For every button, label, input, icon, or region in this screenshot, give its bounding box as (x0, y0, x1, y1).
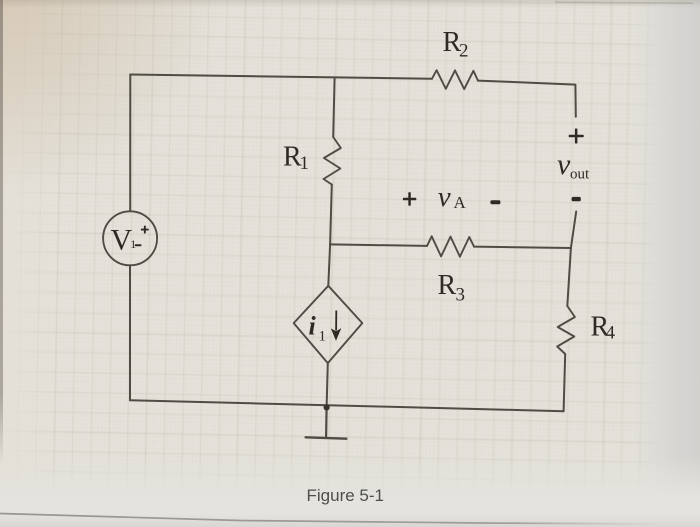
svg-text:i: i (309, 312, 317, 341)
resistor R2 (432, 70, 478, 89)
left feather: grid fades near left (0, 0, 60, 527)
V1 plus polarity mark (141, 226, 149, 234)
svg-text:2: 2 (459, 41, 469, 62)
vout plus polarity mark (569, 129, 584, 144)
photo top edge faint line (555, 2, 693, 3)
resistor R4 (557, 306, 575, 354)
vout minus polarity mark (572, 197, 581, 201)
node junction dot (ground node) (324, 404, 330, 410)
wire node A down to current source top (328, 244, 330, 285)
svg-text:3: 3 (456, 285, 466, 306)
wire R1 bottom to node A (330, 185, 332, 245)
resistor R1 (324, 137, 341, 185)
top-left warm tint (0, 0, 430, 400)
svg-text:4: 4 (606, 323, 616, 344)
svg-text:1: 1 (319, 329, 327, 345)
label V1 (111, 224, 137, 257)
svg-text:v: v (557, 148, 571, 181)
svg-text:Figure 5-1: Figure 5-1 (307, 486, 384, 505)
voltage source V1 circle (103, 211, 157, 265)
photo bottom edge dark line (0, 514, 660, 525)
wire node A to R3 left (330, 244, 427, 246)
node vA plus polarity mark (403, 192, 416, 205)
svg-text:A: A (454, 193, 467, 212)
V1 minus polarity mark (135, 244, 142, 246)
label R4 (591, 312, 616, 344)
wire vout minus tick down to R3 node (571, 212, 576, 249)
label vA (node A voltage) (438, 181, 467, 213)
wire current source bottom to ground node (327, 363, 328, 407)
wire R3 right to right branch (474, 247, 571, 248)
label i1 of current source (309, 312, 327, 345)
wire top (V1 top node to R2 left) (130, 75, 432, 79)
svg-text:v: v (438, 181, 451, 213)
ground stem (325, 407, 328, 436)
right gray strip (632, 0, 700, 527)
svg-text:V: V (111, 224, 133, 257)
dependent current source i1 (diamond) (294, 286, 363, 363)
wire V1 bottom to bottom-left corner (129, 265, 131, 400)
svg-text:R: R (438, 270, 457, 301)
wire left branch upper (top node down to V1) (129, 75, 131, 212)
wire R2 right to vout + corner (478, 81, 576, 117)
label R1 (283, 142, 309, 175)
label R2 (443, 27, 469, 62)
arrow of current source i1 (332, 311, 340, 340)
bottom plain strip (grid fade) (0, 456, 700, 527)
wire right branch to R4 top (567, 248, 571, 306)
svg-text:1: 1 (130, 237, 136, 251)
left dark edge sliver (0, 0, 3, 480)
label R3 (438, 270, 466, 306)
node vA minus polarity mark (490, 200, 500, 204)
bottom-of-photo strip below dark line (0, 514, 700, 527)
top strip slight shade (0, 0, 700, 8)
wire R4 bottom to bottom-right corner (564, 354, 566, 411)
resistor R3 (427, 236, 474, 256)
ground bar (306, 437, 347, 438)
svg-text:1: 1 (300, 153, 310, 174)
wire bottom rail (130, 400, 564, 411)
svg-text:out: out (570, 167, 590, 183)
wire R1 branch top (333, 77, 334, 137)
label vout (output voltage) (557, 148, 590, 183)
